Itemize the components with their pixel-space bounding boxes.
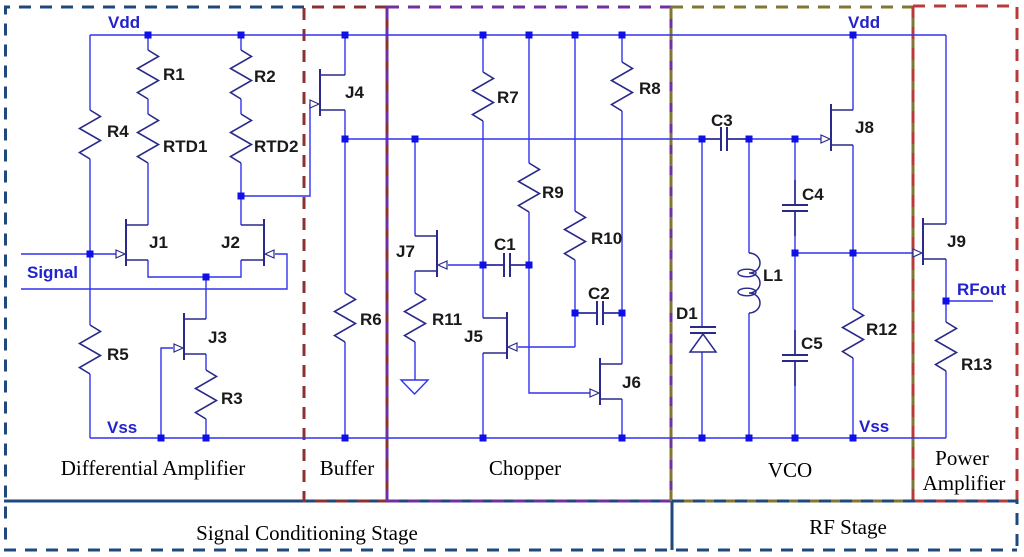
svg-text:Signal: Signal: [27, 263, 78, 282]
node Signal J1 gate: [87, 251, 94, 258]
node J8 source row: [850, 250, 857, 257]
wire J5 source to Vss: [482, 353, 484, 438]
wire J6 source to Vss: [621, 399, 623, 438]
capacitor C5 leads: [794, 330, 796, 386]
wire Vss rail: [90, 437, 946, 439]
svg-text:J4: J4: [345, 83, 364, 102]
svg-text:C2: C2: [588, 284, 610, 303]
RF Stage box (dashed): [672, 501, 1017, 550]
svg-text:R3: R3: [221, 389, 243, 408]
Power Amplifier section dashed box (red, top and right edges): [913, 6, 1017, 501]
node C5 bottom: [792, 435, 799, 442]
node J4 source rail: [342, 136, 349, 143]
wire R7 branch: [482, 35, 484, 265]
svg-text:J2: J2: [221, 233, 240, 252]
svg-text:VCO: VCO: [768, 458, 812, 482]
svg-text:Vss: Vss: [107, 418, 137, 437]
wire J9 source to RFout node: [945, 259, 947, 301]
svg-text:Vdd: Vdd: [108, 13, 140, 32]
varactor diode D1: [690, 327, 716, 333]
svg-text:R11: R11: [432, 310, 462, 329]
wire J7 source to R11: [414, 271, 416, 293]
capacitor C5 plates: [782, 355, 808, 361]
node C2 right: [619, 310, 626, 317]
node C1 left: [480, 262, 487, 269]
svg-text:C4: C4: [802, 185, 824, 204]
capacitor C1 plates: [504, 253, 510, 277]
JFET J2: [241, 219, 274, 266]
resistor R6: [335, 293, 356, 342]
svg-text:R2: R2: [254, 67, 276, 86]
svg-text:RFout: RFout: [957, 280, 1006, 299]
svg-text:R9: R9: [542, 183, 564, 202]
capacitor C2 plates: [597, 301, 603, 325]
node J5 source Vss: [480, 435, 487, 442]
svg-text:Buffer: Buffer: [320, 456, 374, 480]
capacitor C4 leads: [794, 180, 796, 236]
wire Signal lower line to J2 gate: [21, 254, 287, 289]
svg-text:Vdd: Vdd: [848, 13, 880, 32]
resistor R2: [231, 50, 252, 99]
wire R12 branch: [852, 253, 854, 438]
wire Signal upper line: [21, 253, 116, 255]
VCO/PA shared divider overlay: [912, 6, 915, 501]
node R6 bottom: [342, 435, 349, 442]
resistor R13: [936, 322, 957, 371]
wire RFout stub: [946, 300, 993, 302]
JFET J7: [415, 230, 447, 277]
svg-text:J7: J7: [396, 242, 415, 261]
node J3 gate Vss: [158, 435, 165, 442]
VCO section dashed box (olive, top and right edges): [671, 7, 913, 501]
capacitor C3 leads: [702, 138, 749, 140]
wire J7 drain: [414, 139, 416, 236]
node J4 drain top: [342, 32, 349, 39]
wire L1 branch: [748, 139, 750, 438]
Chopper section dashed box (purple): [387, 7, 671, 501]
wire VCO output row to J9 gate: [795, 252, 913, 254]
svg-text:RTD1: RTD1: [163, 137, 207, 156]
node R3 bottom: [203, 435, 210, 442]
wire R13 leads: [945, 301, 947, 438]
svg-text:Power: Power: [935, 446, 989, 470]
resistor R7: [473, 72, 494, 121]
JFET J8: [821, 104, 853, 151]
svg-text:J1: J1: [149, 233, 168, 252]
wire R4 branch: [89, 35, 91, 438]
svg-text:R6: R6: [360, 310, 382, 329]
node J6 source Vss: [619, 435, 626, 442]
capacitor C1 leads: [483, 264, 529, 266]
node Vdd right: [850, 32, 857, 39]
JFET J6: [590, 358, 622, 405]
wire R1/RTD1 branch: [147, 35, 149, 225]
svg-text:R10: R10: [591, 229, 622, 248]
resistor R12: [843, 309, 864, 358]
wire J8 source down: [852, 145, 854, 253]
VCO bottom dashes overlay on stage line: [684, 500, 913, 503]
node C4 top: [792, 136, 799, 143]
node RFout: [943, 298, 950, 305]
wire R6 branch: [344, 139, 346, 438]
node C3 left: [699, 136, 706, 143]
svg-text:Vss: Vss: [859, 417, 889, 436]
svg-text:RTD2: RTD2: [254, 137, 298, 156]
resistor R4: [80, 110, 101, 159]
svg-text:RF Stage: RF Stage: [809, 515, 887, 539]
wire J7 gate to C1: [448, 264, 483, 266]
node R10 top: [572, 32, 579, 39]
svg-text:Signal Conditioning Stage: Signal Conditioning Stage: [196, 521, 418, 545]
ground symbol below R11: [401, 380, 428, 394]
JFET J4: [310, 69, 345, 116]
resistor R11: [405, 293, 426, 342]
wire C1 leads: [483, 264, 529, 266]
svg-text:J5: J5: [464, 327, 483, 346]
capacitor C4 plates: [782, 205, 808, 211]
wire D1 branch: [701, 139, 703, 438]
svg-text:J9: J9: [947, 232, 966, 251]
node L1 bottom: [746, 435, 753, 442]
wire J3 gate to Vss: [161, 348, 173, 438]
wire J4 drain to Vdd: [344, 35, 346, 75]
Signal Conditioning Stage box (solid top and right edge): [4, 501, 672, 550]
wire J8 drain to Vdd: [852, 35, 854, 110]
resistor R8: [612, 62, 633, 111]
resistor R10: [565, 211, 586, 260]
svg-text:Amplifier: Amplifier: [923, 471, 1006, 495]
Buffer section dashed box (dark red): [304, 7, 387, 501]
svg-text:R1: R1: [163, 65, 185, 84]
node R2 top: [238, 32, 245, 39]
resistor RTD1: [138, 114, 159, 163]
svg-text:J3: J3: [208, 328, 227, 347]
wire node RTD2 to J4 gate: [241, 104, 310, 196]
wire R11 to ground: [414, 342, 416, 380]
wire J5 gate to C2 left: [518, 313, 575, 347]
wire J3 source to R3: [205, 354, 207, 438]
svg-text:R12: R12: [866, 320, 897, 339]
svg-text:D1: D1: [676, 304, 698, 323]
resistor R5: [80, 325, 101, 374]
wire J5 drain: [482, 265, 484, 318]
node R7 top: [480, 32, 487, 39]
wire C2 leads: [575, 312, 622, 314]
varactor diode D1 triangle: [690, 334, 716, 352]
wire tail node to J3 drain: [205, 277, 207, 319]
wire R2/RTD2 branch: [240, 35, 242, 225]
capacitor C3 plates: [721, 127, 727, 151]
node C1 right: [526, 262, 533, 269]
JFET J3: [174, 313, 206, 360]
svg-text:R4: R4: [107, 122, 129, 141]
wire R8 branch down to J6 drain: [621, 35, 623, 364]
wire J9 drain to Vdd rail corner: [945, 35, 947, 224]
JFET J9: [913, 218, 946, 265]
node L1 top: [746, 136, 753, 143]
node C4 bottom row left: [792, 250, 799, 257]
chopper/VCO shared divider overlay: [670, 7, 673, 501]
wire R10 branch: [574, 35, 576, 313]
svg-text:C5: C5: [801, 334, 823, 353]
svg-text:L1: L1: [763, 266, 783, 285]
svg-text:R7: R7: [497, 88, 519, 107]
PA bottom dashes overlay on stage line: [915, 500, 1017, 503]
svg-text:Chopper: Chopper: [489, 456, 561, 480]
svg-text:C3: C3: [711, 111, 733, 130]
node R9 top: [526, 32, 533, 39]
svg-text:J6: J6: [622, 373, 641, 392]
node R1 top: [145, 32, 152, 39]
svg-text:R5: R5: [107, 345, 129, 364]
node source tail: [203, 274, 210, 281]
JFET J5: [483, 312, 517, 359]
node C2 left: [572, 310, 579, 317]
svg-text:J8: J8: [855, 118, 874, 137]
JFET J1: [116, 219, 148, 266]
svg-text:C1: C1: [494, 235, 516, 254]
wire R9 branch and J6 gate drop: [529, 35, 590, 393]
wire second rail (J4 source to J8 gate): [345, 138, 821, 140]
buffer/chopper shared divider overlay: [386, 7, 389, 501]
resistor R1: [138, 50, 159, 99]
wire Vdd rail: [90, 34, 946, 36]
resistor R3: [196, 370, 217, 419]
resistor R9: [519, 163, 540, 212]
wire J4 source down: [344, 110, 346, 139]
node RTD2 J4 gate tap: [238, 193, 245, 200]
wire C4 C5 branch: [794, 139, 796, 438]
node R8 top: [619, 32, 626, 39]
svg-text:Differential Amplifier: Differential Amplifier: [61, 456, 245, 480]
svg-text:R13: R13: [961, 355, 992, 374]
node J7 drain rail: [412, 136, 419, 143]
capacitor C2 leads: [575, 312, 622, 314]
wire J1 J2 source tail: [148, 260, 241, 277]
node D1 bottom: [699, 435, 706, 442]
node R12 bottom: [850, 435, 857, 442]
resistor RTD2: [231, 114, 252, 163]
inductor L1: [749, 253, 760, 313]
svg-text:R8: R8: [639, 79, 661, 98]
